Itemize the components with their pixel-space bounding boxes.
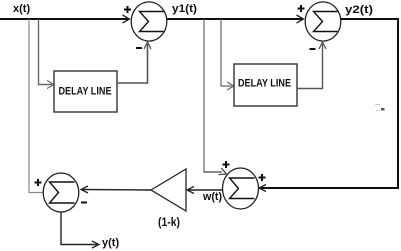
- arrowhead into S2 bottom: [319, 42, 326, 49]
- minus sign at S2 bottom input: [310, 48, 316, 50]
- sigma of S1: [140, 12, 164, 32]
- sigma of S3: [50, 182, 75, 203]
- wire drop from y1(t) line to delay line D2: [221, 19, 232, 86]
- wire input x(t) to summer S1: [0, 18, 129, 20]
- wire G1 output to summer S3: [82, 189, 151, 192]
- wire D2 output to S2 bottom: [297, 43, 323, 89]
- svg-text:x(t): x(t): [13, 3, 30, 15]
- arrowhead into G1 right: [187, 187, 194, 194]
- wire bottom feedback to S4 right: [259, 187, 398, 189]
- plus sign at S4 right input: [259, 174, 266, 181]
- svg-text:y(t): y(t): [102, 237, 119, 249]
- svg-text:DELAY LINE: DELAY LINE: [59, 86, 112, 98]
- wire drop from x(t) line to summer S3: [29, 19, 43, 193]
- arrowhead into S4 upper-left: [219, 168, 228, 177]
- svg-text:w(t): w(t): [202, 191, 222, 203]
- wire right edge vertical feedback: [397, 18, 399, 189]
- svg-text:(1-k): (1-k): [158, 215, 180, 229]
- delay line D2: [234, 64, 297, 106]
- summing junction S2: [305, 2, 341, 41]
- summing junction S4: [223, 168, 259, 209]
- wire S2 output y2(t) to right edge: [341, 18, 399, 20]
- svg-text:y1(t): y1(t): [172, 3, 197, 15]
- wire drop from x(t) line to delay line D1: [39, 19, 53, 85]
- wire S3 output to y(t): [61, 212, 97, 245]
- wire S4 output w(t) to gain G1: [188, 189, 223, 191]
- summing junction S3: [43, 173, 79, 212]
- arrowhead into S1 left: [123, 15, 130, 23]
- arrowhead into S2 left: [297, 15, 304, 23]
- sigma of S2: [314, 12, 338, 32]
- wire D1 output to S1 bottom: [117, 43, 148, 83]
- arrowhead into S1 bottom: [144, 42, 151, 49]
- arrowhead at y(t): [92, 241, 99, 248]
- minus sign at S3 right input: [81, 202, 87, 204]
- summing junction S1: [131, 2, 167, 41]
- stray dot artifact: [381, 108, 385, 111]
- plus sign at S3 left input: [35, 179, 42, 186]
- sigma of S4: [230, 178, 255, 199]
- plus sign at S1 left input: [124, 6, 131, 13]
- arrowhead into D1 left: [47, 81, 54, 89]
- plus sign at S4 upper-left input: [223, 161, 230, 168]
- arrowhead into D2 left: [227, 82, 234, 90]
- svg-text:y2(t): y2(t): [345, 4, 373, 16]
- gain triangle G1: [151, 169, 186, 211]
- minus sign at S1 bottom input: [136, 47, 142, 49]
- svg-text:DELAY LINE: DELAY LINE: [238, 78, 291, 90]
- wire S1 output y1(t) to summer S2: [167, 18, 303, 20]
- wire drop from y1(t) line to summer S4: [203, 19, 205, 172]
- plus sign at S2 left input: [298, 5, 305, 12]
- arrowhead into S4 right: [259, 185, 266, 192]
- arrowhead into S3 right: [81, 186, 88, 193]
- delay line D1: [54, 71, 117, 112]
